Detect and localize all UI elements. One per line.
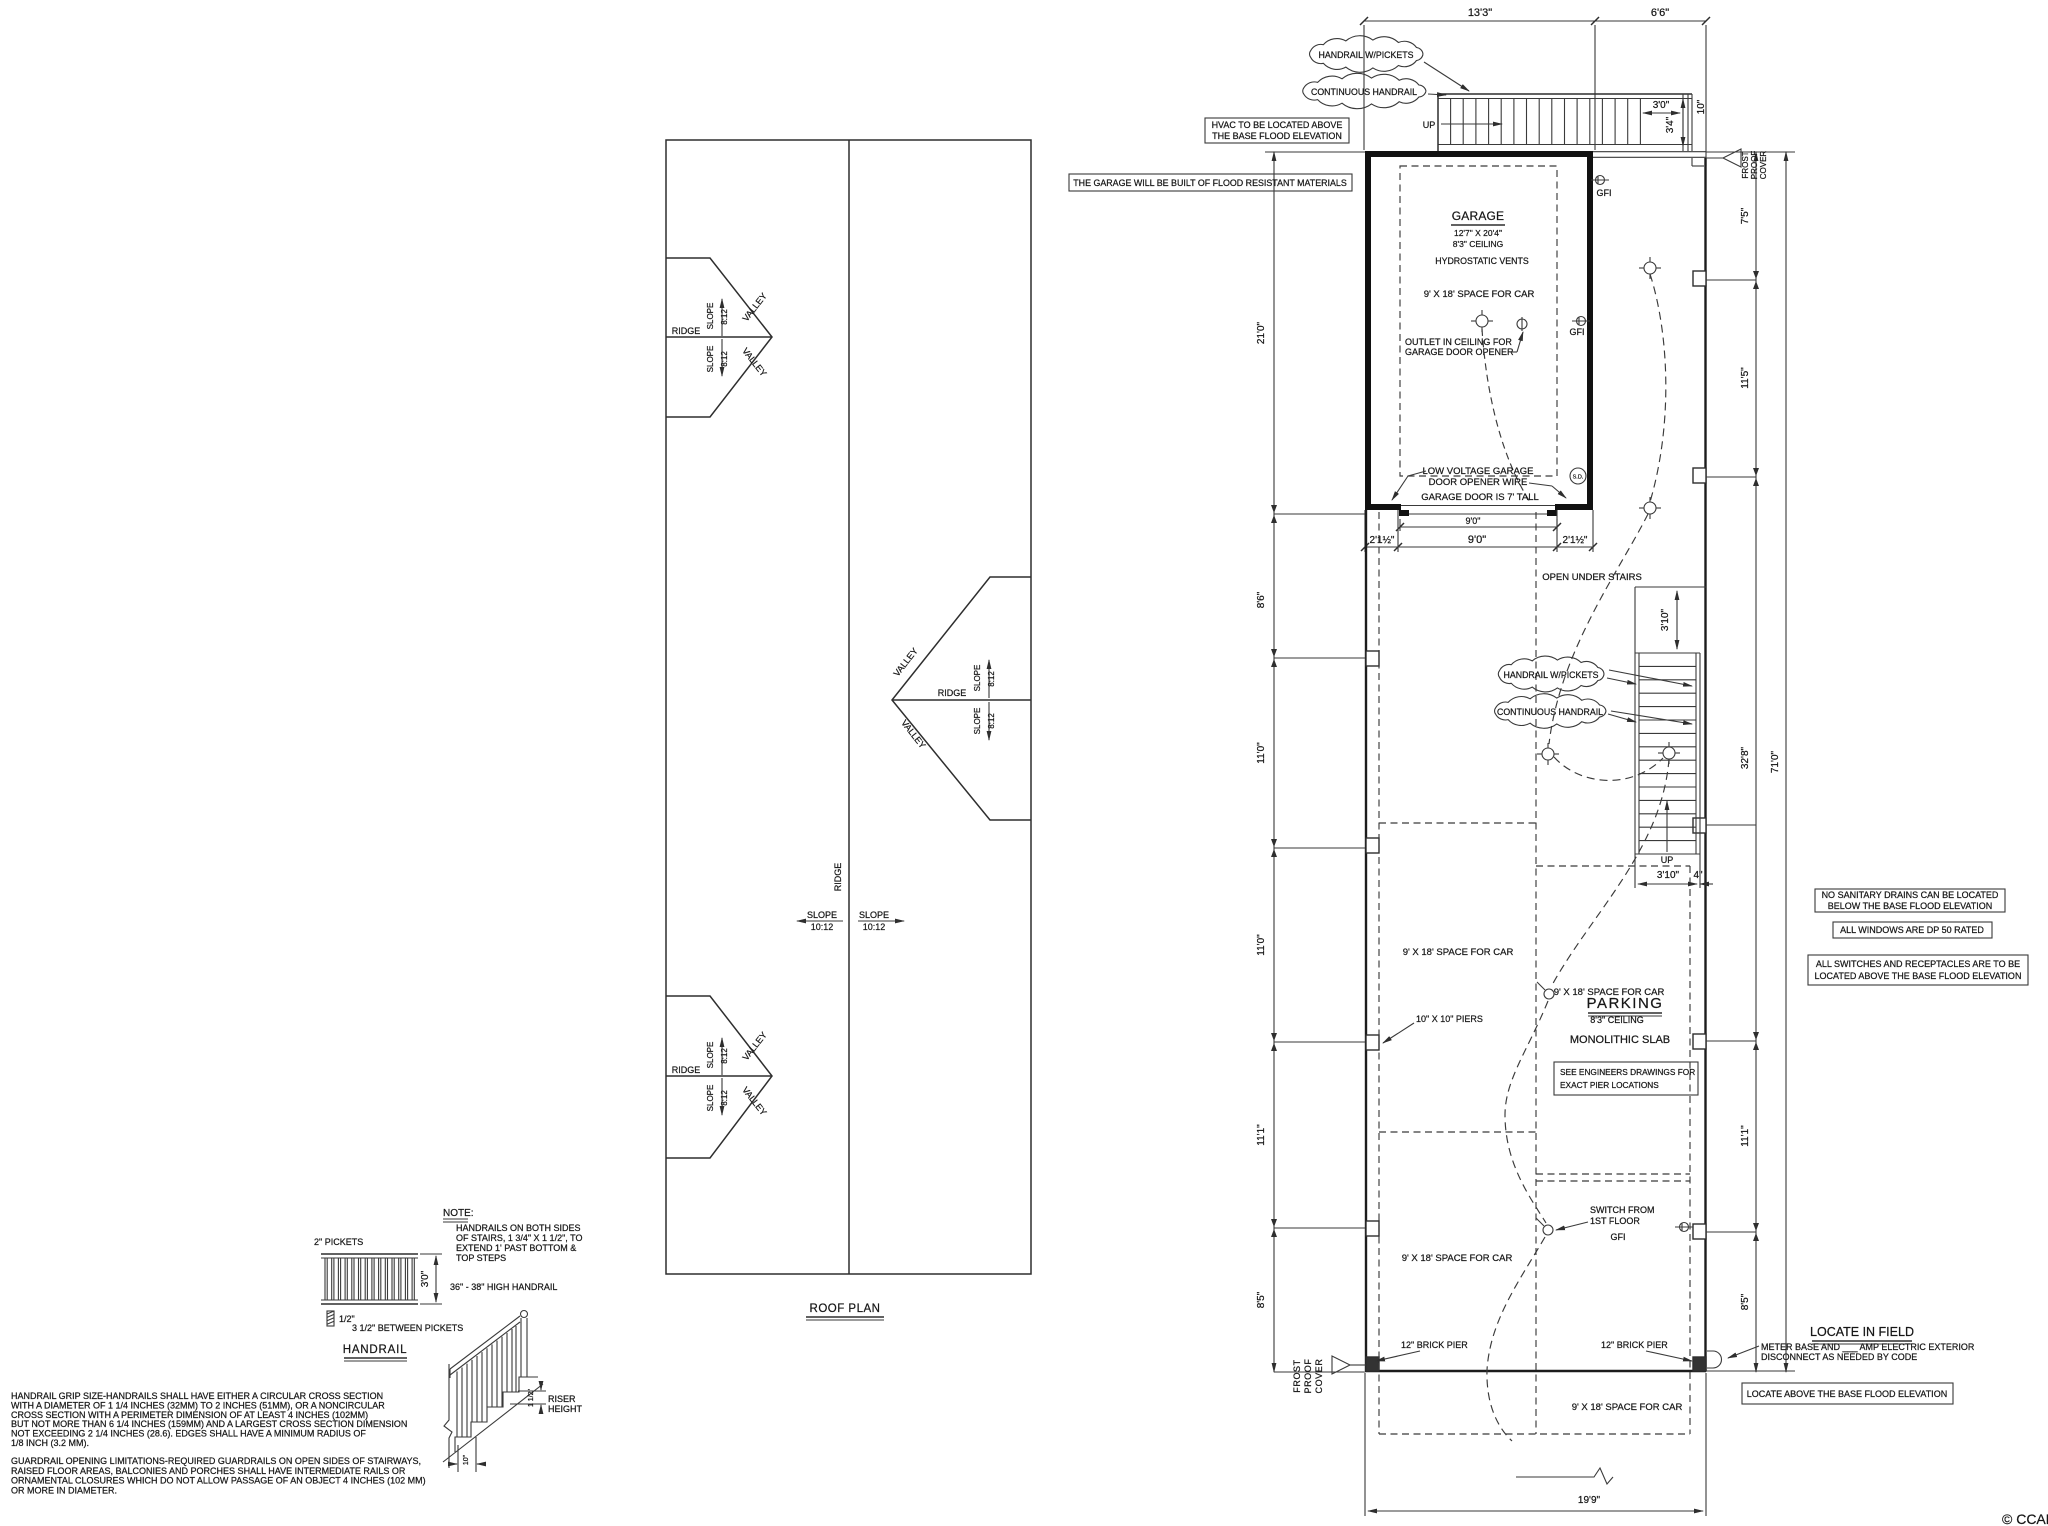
svg-text:PARKING: PARKING <box>1587 995 1664 1012</box>
svg-text:ORNAMENTAL CLOSURES WHICH DO N: ORNAMENTAL CLOSURES WHICH DO NOT ALLOW P… <box>11 1476 426 1486</box>
svg-text:2'1½": 2'1½" <box>1370 535 1395 546</box>
svg-text:SLOPE: SLOPE <box>859 910 889 920</box>
svg-text:12'7" X 20'4": 12'7" X 20'4" <box>1454 228 1502 238</box>
svg-text:SLOPE: SLOPE <box>973 708 982 735</box>
svg-text:HANDRAIL: HANDRAIL <box>343 1344 408 1356</box>
svg-text:EXTEND 1' PAST BOTTOM &: EXTEND 1' PAST BOTTOM & <box>456 1243 576 1253</box>
svg-text:3'0": 3'0" <box>420 1270 431 1287</box>
svg-text:11'0": 11'0" <box>1256 934 1267 956</box>
svg-text:3'10": 3'10" <box>1657 870 1680 881</box>
svg-text:RAISED FLOOR AREAS, BALCONIES: RAISED FLOOR AREAS, BALCONIES AND PORCHE… <box>11 1466 406 1476</box>
svg-text:LOCATE ABOVE THE BASE FLOOD EL: LOCATE ABOVE THE BASE FLOOD ELEVATION <box>1747 1389 1947 1399</box>
svg-text:8:12: 8:12 <box>720 309 729 325</box>
svg-text:3'10": 3'10" <box>1660 608 1671 631</box>
svg-text:GARAGE: GARAGE <box>1452 209 1505 223</box>
svg-text:8'3" CEILING: 8'3" CEILING <box>1590 1015 1643 1025</box>
svg-text:HEIGHT: HEIGHT <box>548 1404 583 1414</box>
svg-text:SEE ENGINEERS DRAWINGS FOR: SEE ENGINEERS DRAWINGS FOR <box>1560 1067 1695 1077</box>
svg-text:HVAC TO BE LOCATED ABOVE: HVAC TO BE LOCATED ABOVE <box>1212 120 1343 130</box>
svg-text:TOP STEPS: TOP STEPS <box>456 1253 506 1263</box>
svg-text:OPEN UNDER STAIRS: OPEN UNDER STAIRS <box>1542 572 1642 583</box>
svg-text:8'5": 8'5" <box>1740 1293 1751 1310</box>
svg-text:RIDGE: RIDGE <box>672 1065 701 1075</box>
svg-text:8:12: 8:12 <box>720 1048 729 1064</box>
svg-text:BELOW THE BASE FLOOD ELEVATION: BELOW THE BASE FLOOD ELEVATION <box>1828 901 1993 911</box>
svg-text:SLOPE: SLOPE <box>706 1085 715 1112</box>
svg-text:1/8 INCH (3.2 MM).: 1/8 INCH (3.2 MM). <box>11 1438 89 1448</box>
svg-text:8:12: 8:12 <box>987 671 996 687</box>
svg-text:11'5": 11'5" <box>1740 367 1751 389</box>
svg-text:2'1½": 2'1½" <box>1563 535 1588 546</box>
svg-text:9' X 18' SPACE FOR CAR: 9' X 18' SPACE FOR CAR <box>1403 947 1514 958</box>
svg-text:LOW VOLTAGE GARAGE: LOW VOLTAGE GARAGE <box>1422 466 1533 477</box>
svg-text:DISCONNECT AS NEEDED BY CODE: DISCONNECT AS NEEDED BY CODE <box>1761 1352 1917 1362</box>
svg-text:12" BRICK PIER: 12" BRICK PIER <box>1601 1340 1668 1350</box>
svg-text:10": 10" <box>463 1454 470 1465</box>
svg-text:GUARDRAIL OPENING LIMITATIONS-: GUARDRAIL OPENING LIMITATIONS-REQUIRED G… <box>11 1456 421 1466</box>
svg-text:RIDGE: RIDGE <box>672 326 701 336</box>
svg-text:8:12: 8:12 <box>720 351 729 367</box>
svg-text:19'9": 19'9" <box>1578 1495 1601 1506</box>
svg-text:HANDRAIL W/PICKETS: HANDRAIL W/PICKETS <box>1319 50 1414 60</box>
svg-text:DOOR OPENER WIRE: DOOR OPENER WIRE <box>1429 477 1528 488</box>
svg-text:LOCATED ABOVE THE BASE FLOOD E: LOCATED ABOVE THE BASE FLOOD ELEVATION <box>1815 971 2022 981</box>
svg-text:S.D.: S.D. <box>1573 475 1584 481</box>
svg-text:9'0": 9'0" <box>1468 534 1486 546</box>
svg-text:SLOPE: SLOPE <box>706 1042 715 1069</box>
svg-text:10" X 10" PIERS: 10" X 10" PIERS <box>1416 1014 1483 1024</box>
svg-text:UP: UP <box>1423 120 1436 130</box>
svg-text:12" BRICK PIER: 12" BRICK PIER <box>1401 1340 1468 1350</box>
svg-text:13'3": 13'3" <box>1468 7 1492 19</box>
svg-text:71'0": 71'0" <box>1770 750 1781 773</box>
svg-text:OUTLET IN CEILING FOR: OUTLET IN CEILING FOR <box>1405 337 1512 347</box>
svg-text:GARAGE DOOR IS 7' TALL: GARAGE DOOR IS 7' TALL <box>1421 492 1539 503</box>
svg-text:36" - 38" HIGH HANDRAIL: 36" - 38" HIGH HANDRAIL <box>450 1282 557 1292</box>
svg-text:SLOPE: SLOPE <box>706 303 715 330</box>
svg-text:RIDGE: RIDGE <box>833 863 843 892</box>
svg-text:4": 4" <box>1693 870 1703 881</box>
svg-text:GFI: GFI <box>1597 188 1612 198</box>
svg-text:CONTINUOUS HANDRAIL: CONTINUOUS HANDRAIL <box>1311 87 1417 97</box>
svg-text:10:12: 10:12 <box>811 922 834 932</box>
svg-text:ALL SWITCHES AND RECEPTACLES A: ALL SWITCHES AND RECEPTACLES ARE TO BE <box>1816 959 2020 969</box>
svg-text:32'8": 32'8" <box>1740 746 1751 769</box>
svg-text:6'6": 6'6" <box>1651 7 1669 19</box>
svg-text:11'1": 11'1" <box>1740 1125 1751 1147</box>
svg-text:RIDGE: RIDGE <box>938 688 967 698</box>
svg-text:3'0": 3'0" <box>1653 100 1670 111</box>
svg-text:3 1/2" BETWEEN PICKETS: 3 1/2" BETWEEN PICKETS <box>352 1323 463 1333</box>
svg-text:2" PICKETS: 2" PICKETS <box>314 1237 363 1247</box>
svg-text:FROST: FROST <box>1741 151 1750 178</box>
svg-text:GARAGE DOOR OPENER: GARAGE DOOR OPENER <box>1405 347 1514 357</box>
svg-text:SLOPE: SLOPE <box>706 346 715 373</box>
svg-text:FROST: FROST <box>1292 1359 1302 1393</box>
svg-text:7'5": 7'5" <box>1740 207 1751 224</box>
svg-text:EXACT PIER LOCATIONS: EXACT PIER LOCATIONS <box>1560 1080 1659 1090</box>
svg-text:HANDRAILS ON BOTH SIDES: HANDRAILS ON BOTH SIDES <box>456 1223 581 1233</box>
svg-text:3'4": 3'4" <box>1665 116 1676 133</box>
svg-text:ROOF PLAN: ROOF PLAN <box>810 1303 881 1315</box>
svg-text:GFI: GFI <box>1611 1232 1626 1242</box>
svg-text:METER BASE AND ___ AMP ELECTRI: METER BASE AND ___ AMP ELECTRIC EXTERIOR <box>1761 1342 1975 1352</box>
svg-text:NOTE:: NOTE: <box>443 1208 474 1219</box>
svg-text:9' X 18' SPACE FOR CAR: 9' X 18' SPACE FOR CAR <box>1402 1253 1513 1264</box>
svg-text:8:12: 8:12 <box>987 713 996 729</box>
svg-text:SLOPE: SLOPE <box>973 665 982 692</box>
svg-text:© CCAR: © CCAR <box>2002 1511 2048 1526</box>
svg-text:COVER: COVER <box>1759 151 1768 180</box>
svg-text:8'3" CEILING: 8'3" CEILING <box>1453 239 1503 249</box>
svg-text:9' X 18' SPACE FOR CAR: 9' X 18' SPACE FOR CAR <box>1424 289 1535 300</box>
svg-text:SLOPE: SLOPE <box>807 910 837 920</box>
svg-text:1ST FLOOR: 1ST FLOOR <box>1590 1216 1640 1226</box>
svg-text:COVER: COVER <box>1314 1358 1324 1393</box>
svg-text:LOCATE IN FIELD: LOCATE IN FIELD <box>1810 1325 1914 1339</box>
svg-text:HYDROSTATIC VENTS: HYDROSTATIC VENTS <box>1435 256 1529 266</box>
svg-text:ALL WINDOWS ARE DP 50 RATED: ALL WINDOWS ARE DP 50 RATED <box>1840 925 1984 935</box>
svg-text:OF STAIRS, 1 3/4" X 1 1/2", TO: OF STAIRS, 1 3/4" X 1 1/2", TO <box>456 1233 582 1243</box>
svg-text:GFI: GFI <box>1570 327 1585 337</box>
svg-text:MONOLITHIC SLAB: MONOLITHIC SLAB <box>1570 1034 1670 1046</box>
svg-text:HANDRAIL W/PICKETS: HANDRAIL W/PICKETS <box>1504 670 1599 680</box>
svg-text:NO SANITARY DRAINS CAN BE LOCA: NO SANITARY DRAINS CAN BE LOCATED <box>1822 890 1999 900</box>
svg-text:UP: UP <box>1661 855 1674 865</box>
svg-text:10": 10" <box>1696 99 1707 114</box>
svg-text:11'0": 11'0" <box>1256 742 1267 764</box>
svg-text:THE GARAGE WILL BE BUILT OF FL: THE GARAGE WILL BE BUILT OF FLOOD RESIST… <box>1073 178 1347 188</box>
svg-text:THE BASE FLOOD ELEVATION: THE BASE FLOOD ELEVATION <box>1212 131 1342 141</box>
svg-text:9'0": 9'0" <box>1466 516 1481 526</box>
svg-text:OR MORE IN DIAMETER.: OR MORE IN DIAMETER. <box>11 1485 117 1495</box>
svg-text:11'1": 11'1" <box>1256 1124 1267 1146</box>
svg-text:PROOF: PROOF <box>1750 151 1759 180</box>
svg-text:PROOF: PROOF <box>1303 1358 1313 1393</box>
svg-text:CONTINUOUS HANDRAIL: CONTINUOUS HANDRAIL <box>1497 707 1603 717</box>
svg-text:9' X 18' SPACE FOR CAR: 9' X 18' SPACE FOR CAR <box>1572 1402 1683 1413</box>
svg-text:SWITCH FROM: SWITCH FROM <box>1590 1205 1655 1215</box>
svg-text:RISER: RISER <box>548 1394 576 1404</box>
svg-text:21'0": 21'0" <box>1256 321 1267 344</box>
svg-text:8'5": 8'5" <box>1256 1291 1267 1308</box>
svg-text:8:12: 8:12 <box>720 1090 729 1106</box>
svg-text:10:12: 10:12 <box>863 922 886 932</box>
svg-text:8'6": 8'6" <box>1256 591 1267 608</box>
svg-text:1 1/2": 1 1/2" <box>528 1388 535 1407</box>
